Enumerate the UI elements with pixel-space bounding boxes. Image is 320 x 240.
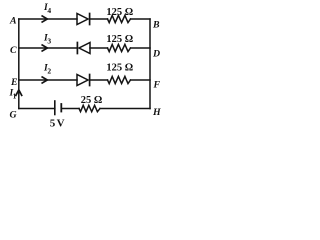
svg-text:2: 2 xyxy=(47,67,51,76)
label I3 xyxy=(43,33,51,45)
diode D1 row1 xyxy=(77,14,90,25)
resistor R2 125 ohm row2 xyxy=(108,44,131,51)
label I4 xyxy=(43,3,51,15)
wire row1 A to diode xyxy=(19,18,77,20)
diode D2 row2 xyxy=(77,43,90,54)
wire row3 diode to resistor xyxy=(90,79,108,81)
wire row1 diode to resistor xyxy=(90,18,108,20)
svg-text:C: C xyxy=(10,45,17,56)
svg-text:E: E xyxy=(10,77,18,88)
wire left rail A-G xyxy=(18,19,20,109)
wire row3 resistor to F xyxy=(131,79,151,81)
arrow I4 on row1 xyxy=(42,16,47,22)
wire row4 battery to resistor xyxy=(61,108,79,110)
svg-text:A: A xyxy=(9,15,17,26)
resistor R1 125 ohm row1 xyxy=(108,15,131,22)
svg-text:1: 1 xyxy=(13,91,17,100)
svg-text:3: 3 xyxy=(47,36,51,45)
resistor R4 25 ohm row4 xyxy=(79,105,100,111)
wire row4 resistor to H xyxy=(100,108,150,110)
wire row2 C to diode xyxy=(19,47,77,49)
svg-text:D: D xyxy=(152,49,160,60)
wire row2 diode to resistor xyxy=(90,47,108,49)
arrow I1 on left rail xyxy=(16,90,22,96)
resistor R3 125 ohm row3 xyxy=(108,76,131,83)
svg-text:B: B xyxy=(152,20,160,31)
wire right rail B-H xyxy=(149,19,151,109)
wire row2 resistor to D xyxy=(131,47,151,49)
svg-text:H: H xyxy=(152,107,161,118)
svg-text:125 Ω: 125 Ω xyxy=(106,63,133,74)
arrow I3 on row2 xyxy=(42,45,47,51)
svg-text:125 Ω: 125 Ω xyxy=(106,7,133,18)
label I2 xyxy=(43,64,51,76)
arrow I2 on row3 xyxy=(42,77,47,83)
label I1 xyxy=(9,88,17,100)
svg-text:F: F xyxy=(153,79,161,90)
battery 5V short plate xyxy=(60,104,62,112)
svg-text:25 Ω: 25 Ω xyxy=(81,95,103,106)
battery 5V long plate xyxy=(54,101,56,115)
wire row3 E to diode xyxy=(19,79,77,81)
svg-text:V: V xyxy=(57,117,65,129)
svg-text:125 Ω: 125 Ω xyxy=(106,34,133,45)
wire row4 G to battery xyxy=(19,108,55,110)
svg-text:4: 4 xyxy=(47,6,51,15)
svg-text:G: G xyxy=(10,110,17,121)
svg-text:5: 5 xyxy=(50,117,56,129)
wire row1 resistor to B xyxy=(131,18,151,20)
diode D3 row3 xyxy=(77,75,90,86)
